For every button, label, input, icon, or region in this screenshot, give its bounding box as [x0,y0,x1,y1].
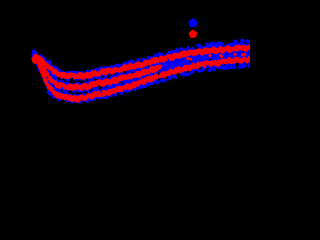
legend marker red pentagon [190,31,197,38]
light-curve chart [0,0,250,163]
legend marker blue pentagon [189,19,197,26]
red scatter series [32,45,253,103]
blue scatter series [32,39,253,104]
